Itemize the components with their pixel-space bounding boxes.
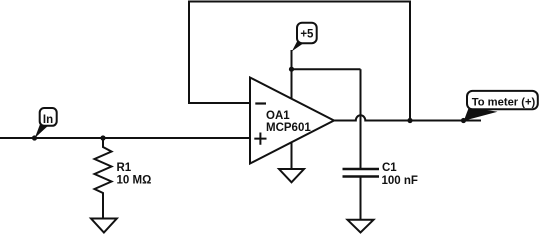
node In callout pointer <box>35 124 48 138</box>
capacitor C1 bottom lead <box>360 177 362 220</box>
wire: feedback loop top horizontal <box>188 1 411 3</box>
svg-text:To meter (+): To meter (+) <box>472 97 536 109</box>
wire: op-amp V- pin to ground <box>291 142 293 169</box>
resistor R1 <box>95 138 112 219</box>
ground for R1 <box>91 219 117 233</box>
wire: supply horizontal (+5 to bypass) <box>292 68 361 70</box>
capacitor C1 plates <box>343 169 380 177</box>
ground for C1 <box>348 220 374 233</box>
power +5 callout pointer <box>292 41 304 51</box>
op-amp plus input symbol <box>254 133 266 145</box>
svg-text:C1: C1 <box>382 162 397 174</box>
wire: main input horizontal (In to op-amp +) <box>0 137 250 139</box>
node To meter (+) callout box <box>467 91 538 109</box>
junction dot at In <box>32 135 37 140</box>
wire: bypass vertical (supply to C1) <box>360 69 362 169</box>
svg-text:+5: +5 <box>300 28 314 40</box>
op-amp minus input symbol <box>255 102 266 104</box>
wire: feedback loop left vertical <box>188 2 190 104</box>
svg-text:R1: R1 <box>117 162 132 174</box>
node To meter (+) callout pointer <box>464 107 498 121</box>
junction dot at feedback/output <box>407 118 412 123</box>
wire: output horizontal with hop over bypass wire <box>334 115 481 120</box>
svg-text:10 MΩ: 10 MΩ <box>117 175 152 187</box>
wire: feedback loop right vertical <box>409 2 411 121</box>
node In callout box <box>40 108 57 126</box>
svg-text:100 nF: 100 nF <box>382 175 418 187</box>
junction dot at To meter <box>461 118 466 123</box>
junction dot at +5 supply node <box>289 67 294 72</box>
junction dot at R1 branch <box>100 135 105 140</box>
wire: inverting input horizontal <box>188 102 250 104</box>
wire: op-amp V+ power pin <box>291 50 293 99</box>
svg-text:In: In <box>43 114 53 126</box>
svg-text:OA1: OA1 <box>266 110 290 122</box>
svg-text:MCP601: MCP601 <box>266 122 311 134</box>
ground for op-amp V- <box>279 169 304 182</box>
power +5 callout box <box>297 23 317 44</box>
op-amp U1 OA1 MCP601 triangle <box>250 78 334 164</box>
